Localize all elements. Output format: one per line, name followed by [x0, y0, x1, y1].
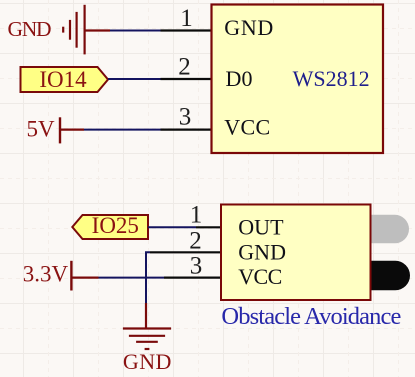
svg-text:3: 3 [190, 252, 203, 279]
wire pin2 WS2812 (blue) [108, 78, 161, 80]
pin 2 stub WS2812 (black) [161, 78, 212, 80]
pin 2 stub Obstacle (black) [150, 251, 221, 253]
ground lead (dark red vertical) [145, 303, 147, 328]
svg-text:WS2812: WS2812 [293, 66, 370, 91]
svg-text:3.3V: 3.3V [23, 261, 69, 286]
component U? WS2812 body [212, 5, 384, 154]
pin 1 stub WS2812 (black) [161, 29, 212, 31]
wire pin2 GND (blue, bends down) [146, 252, 150, 303]
svg-text:1: 1 [180, 5, 193, 32]
port IO25 [72, 213, 148, 239]
svg-text:VCC: VCC [238, 264, 282, 289]
port IO14 [21, 67, 109, 92]
svg-text:IO25: IO25 [92, 213, 139, 238]
svg-text:OUT: OUT [238, 214, 284, 239]
svg-text:2: 2 [189, 227, 202, 254]
wire pin1 OUT (blue) [148, 226, 196, 228]
svg-text:3: 3 [179, 104, 192, 131]
wire pin3 WS2812 (blue) [84, 129, 161, 131]
svg-text:D0: D0 [226, 66, 253, 91]
svg-text:GND: GND [123, 349, 171, 374]
IR receiver (black pill) [356, 261, 410, 290]
svg-text:Obstacle Avoidance: Obstacle Avoidance [221, 303, 401, 330]
IR emitter (gray pill) [356, 215, 409, 244]
svg-text:GND: GND [8, 17, 52, 41]
svg-text:VCC: VCC [224, 115, 270, 140]
svg-text:IO14: IO14 [39, 67, 87, 92]
svg-text:GND: GND [224, 15, 273, 40]
svg-text:2: 2 [178, 54, 191, 81]
svg-text:1: 1 [190, 201, 203, 228]
svg-text:5V: 5V [27, 116, 56, 141]
component Obstacle Avoidance body [221, 205, 371, 301]
power port GND (top left, bar-style earth rotated) [63, 5, 110, 55]
svg-text:GND: GND [238, 239, 286, 264]
power port 3.3V [23, 261, 99, 291]
wire pin1 WS2812 (blue) [110, 30, 161, 32]
pin 3 stub WS2812 (black) [161, 129, 212, 131]
wire pin3 VCC (blue) [99, 277, 165, 279]
pin 1 stub Obstacle (black) [196, 226, 221, 228]
pin 3 stub Obstacle (black) [164, 277, 221, 279]
power port 5V [27, 116, 85, 143]
ground symbol [123, 329, 171, 350]
